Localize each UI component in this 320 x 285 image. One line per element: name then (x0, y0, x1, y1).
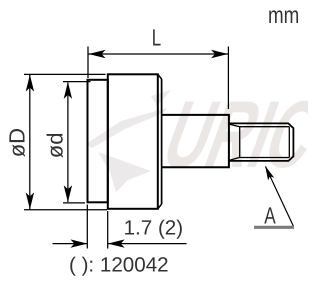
svg-text:øD: øD (4, 128, 29, 157)
thread minor diameter bottom (240, 157, 290, 159)
thread lead-in chamfer bottom (230, 157, 240, 160)
dimension L extension line left (87, 47, 89, 79)
thread outline (229, 123, 293, 160)
watermark text uric (150, 82, 320, 188)
svg-text:( ): 120042: ( ): 120042 (69, 253, 169, 276)
dimension 1.7 extension left (86, 205, 88, 249)
thread minor diameter top (240, 126, 290, 128)
dimension 1.7 line left (53, 243, 88, 245)
body chamfer top (158, 74, 162, 79)
dimension oD arrow top (26, 75, 34, 92)
dimension od arrow bottom (64, 185, 72, 202)
detail A underline (254, 226, 294, 229)
dimension oD arrow bottom (26, 192, 34, 209)
stem shaft (162, 115, 229, 167)
dimension L line (89, 53, 229, 55)
watermark logo swoosh (86, 90, 171, 192)
dimension 1.7 extension right (107, 211, 109, 249)
thread end edge (288, 127, 290, 158)
svg-text:A: A (264, 203, 276, 229)
dimension 1.7 line right (108, 243, 187, 245)
svg-text:mm: mm (268, 2, 299, 28)
body chamfer bottom (158, 204, 162, 209)
svg-text:L: L (152, 24, 161, 50)
dimension oD extension top (24, 73, 106, 75)
dimension oD extension bottom (24, 209, 107, 211)
dimension 1.7 arrow right (108, 239, 125, 247)
dimension od extension top (63, 81, 91, 83)
dimension oD line (29, 75, 31, 209)
dimension L arrow right (211, 50, 228, 58)
dimension od line (67, 83, 69, 203)
thread lead-in chamfer top (230, 124, 240, 127)
detail A arrowhead (262, 165, 274, 181)
detail A leader line (266, 167, 294, 227)
dimension L arrow left (89, 50, 106, 58)
dimension od arrow top (64, 82, 72, 99)
body right face edge (161, 79, 163, 204)
disc contact face (1.7 thick) (88, 80, 108, 203)
dimension 1.7 arrow left (70, 239, 87, 247)
dimension L extension line right (227, 47, 229, 110)
svg-text:1.7 (2): 1.7 (2) (124, 216, 184, 239)
dimension od extension bottom (63, 202, 85, 204)
thread start edge (239, 127, 241, 158)
body oD (108, 74, 158, 209)
svg-text:ød: ød (43, 133, 68, 159)
